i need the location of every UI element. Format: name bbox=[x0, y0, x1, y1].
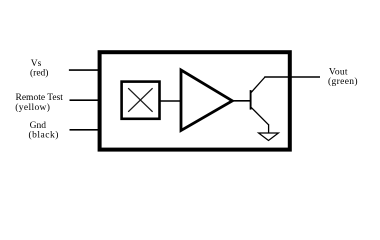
svg-text:(green): (green) bbox=[328, 76, 358, 87]
wire Remote Test input bbox=[70, 99, 100, 101]
wire collector to Vout bbox=[264, 76, 320, 78]
svg-text:(black): (black) bbox=[29, 130, 59, 141]
label Vs (red) bbox=[30, 59, 48, 79]
label Gnd (black) bbox=[29, 121, 59, 141]
multiplier block X1 bbox=[122, 82, 160, 119]
wire amplifier to transistor base bbox=[232, 100, 251, 102]
amplifier A1 bbox=[181, 70, 232, 131]
svg-text:Remote Test: Remote Test bbox=[16, 93, 64, 103]
svg-text:Vout: Vout bbox=[329, 67, 348, 77]
wire Gnd input bbox=[70, 129, 100, 131]
label Remote Test (yellow) bbox=[15, 93, 63, 113]
ground bbox=[259, 133, 279, 141]
wire X1 to amplifier bbox=[160, 100, 182, 102]
svg-text:(red): (red) bbox=[30, 68, 48, 79]
label Vout (green) bbox=[328, 67, 358, 87]
transistor Q1 bbox=[251, 77, 269, 125]
main module box U1 bbox=[100, 52, 290, 149]
svg-text:(yellow): (yellow) bbox=[15, 102, 50, 113]
svg-text:Gnd: Gnd bbox=[30, 121, 47, 131]
wire emitter stub bbox=[268, 124, 270, 133]
wire Vs input bbox=[69, 69, 99, 71]
svg-text:Vs: Vs bbox=[31, 59, 42, 69]
